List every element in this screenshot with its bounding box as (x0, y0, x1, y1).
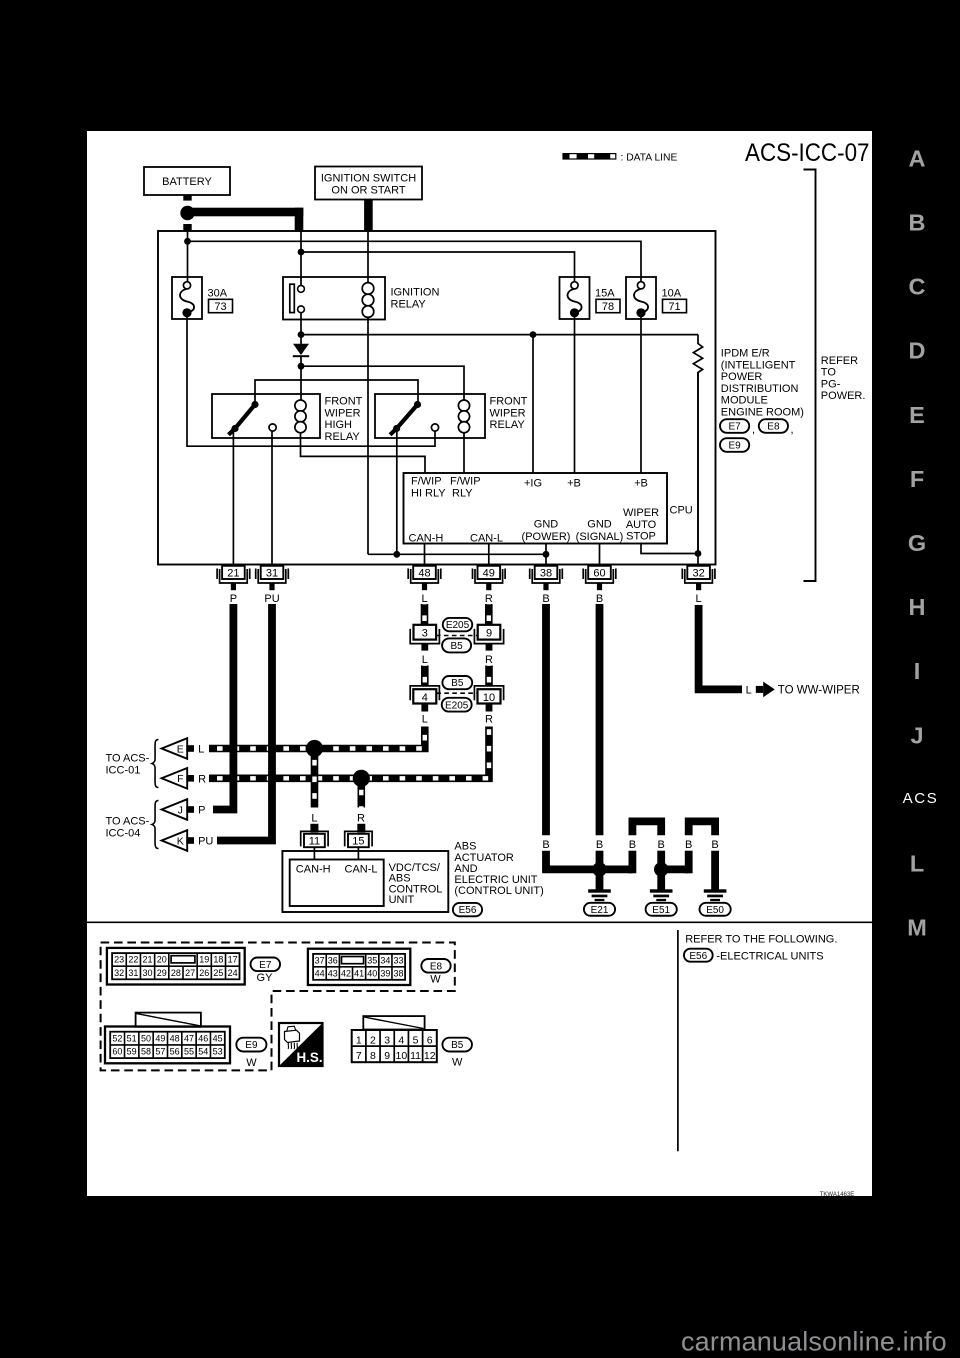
svg-text:71: 71 (668, 301, 680, 313)
svg-text:L: L (746, 684, 752, 696)
svg-text:TO WW-WIPER: TO WW-WIPER (778, 685, 860, 697)
svg-text:52: 52 (112, 1033, 122, 1043)
wire data line connector 3 to connector 4 (421, 666, 429, 687)
svg-text:TO ACS-: TO ACS- (106, 816, 150, 828)
svg-text:E: E (177, 743, 184, 755)
wire data line CAN-H drop to ABS pin 11 (311, 749, 319, 808)
svg-text:78: 78 (602, 301, 614, 313)
svg-text:+IG: +IG (524, 478, 542, 490)
connector ref E7 (720, 419, 749, 433)
connector 3 (414, 625, 437, 640)
svg-text:I: I (914, 658, 921, 684)
svg-text:STOP: STOP (626, 531, 656, 543)
svg-text:RELAY: RELAY (325, 431, 361, 443)
svg-text:ENGINE ROOM): ENGINE ROOM) (721, 407, 804, 419)
svg-text:E56: E56 (689, 951, 707, 962)
wire +IG down to CPU (532, 335, 534, 473)
fuse 30A 73 (172, 277, 202, 319)
svg-text:POWER.: POWER. (821, 390, 866, 402)
wire high relay armature to pin 21 (232, 431, 234, 566)
svg-text:15: 15 (352, 836, 364, 848)
svg-text:G: G (908, 530, 926, 556)
white drawing sheet (87, 131, 872, 1196)
svg-text:3: 3 (422, 628, 428, 640)
wire stub ABS pin 15 (357, 824, 365, 833)
node ground E21 (592, 862, 606, 876)
wire CAN-H to pin 48 (424, 544, 426, 566)
wire battery thick feed to ignition relay column (188, 208, 304, 217)
svg-text:J: J (910, 722, 923, 748)
connector pin 49 (478, 566, 501, 579)
svg-text:W: W (452, 1057, 463, 1069)
svg-text:32: 32 (114, 968, 124, 978)
svg-text:12: 12 (424, 1050, 436, 1062)
node +IG branch (298, 331, 305, 338)
svg-text:R: R (485, 654, 493, 666)
svg-text:ICC-04: ICC-04 (106, 827, 141, 839)
svg-text:59: 59 (127, 1047, 137, 1057)
ground E51 (657, 873, 665, 890)
svg-text:(INTELLIGENT: (INTELLIGENT (721, 359, 796, 371)
connector face E9 (136, 1013, 201, 1027)
svg-text:W: W (246, 1057, 257, 1069)
off-page arrow J (162, 799, 188, 820)
node CAN-H branch (306, 740, 323, 757)
connector ref E205 lower (442, 698, 472, 712)
wire battery stub (183, 195, 191, 201)
svg-text:32: 32 (692, 568, 704, 580)
wire armature feed bus (255, 380, 418, 402)
svg-text:E50: E50 (706, 905, 724, 916)
svg-text:,: , (752, 424, 755, 436)
fuse 15A 78 (560, 277, 590, 319)
svg-text:AUTO: AUTO (626, 519, 657, 531)
svg-text:60: 60 (112, 1047, 122, 1057)
svg-text:48: 48 (418, 568, 430, 580)
svg-text:44: 44 (315, 968, 325, 978)
svg-text:B5: B5 (451, 678, 464, 689)
svg-text:WIPER: WIPER (623, 507, 659, 519)
connector 10 (474, 686, 503, 700)
connector ref E56 note (684, 949, 713, 962)
svg-text:UNIT: UNIT (389, 894, 415, 906)
svg-text:35: 35 (367, 955, 377, 965)
svg-text:P: P (198, 805, 205, 817)
svg-text:E8: E8 (767, 422, 780, 433)
wire 15A fuse to CPU +B (574, 316, 576, 473)
svg-text:CAN-L: CAN-L (345, 864, 378, 876)
connector detail dashed group outline (101, 943, 455, 1071)
wire wiper auto stop output (641, 544, 698, 554)
svg-text:4: 4 (422, 692, 428, 704)
svg-text:E9: E9 (728, 441, 741, 452)
connector ref E205 (443, 618, 473, 631)
svg-text:ON OR START: ON OR START (331, 185, 405, 197)
svg-text:25: 25 (213, 968, 223, 978)
svg-text:L: L (422, 654, 428, 666)
svg-text:53: 53 (213, 1047, 223, 1057)
svg-text:CAN-H: CAN-H (409, 532, 444, 544)
svg-text:5: 5 (413, 1034, 419, 1046)
svg-text:B: B (542, 593, 549, 605)
connector ref E9 (720, 438, 749, 452)
svg-text:M: M (907, 915, 927, 941)
svg-text:RLY: RLY (452, 487, 473, 499)
svg-text:: DATA LINE: : DATA LINE (621, 153, 678, 164)
wire ground bus segment (368, 553, 546, 555)
svg-text:L: L (696, 593, 702, 605)
svg-text:55: 55 (184, 1047, 194, 1057)
connector ref E8 (759, 419, 788, 433)
wire +IG bus (301, 334, 698, 336)
wire high relay contact to pin 31 (271, 431, 273, 566)
wire GND POWER to pin 38 (545, 544, 547, 566)
off-page arrow E (162, 738, 188, 759)
wire ignition switch feed (364, 200, 373, 232)
svg-text:38: 38 (540, 568, 552, 580)
svg-text:36: 36 (328, 955, 338, 965)
svg-text:HIGH: HIGH (325, 419, 353, 431)
off-page arrow K (162, 830, 188, 851)
ground loop 2 (689, 821, 715, 835)
wire stub ABS pin 11 (310, 824, 318, 833)
svg-text:4: 4 (398, 1034, 404, 1046)
svg-text:J: J (178, 804, 183, 816)
svg-text:30A: 30A (208, 287, 228, 299)
node +IG tap (530, 331, 537, 338)
connector pin 31 (261, 566, 284, 579)
svg-text:9: 9 (486, 628, 492, 640)
svg-text:42: 42 (341, 968, 351, 978)
svg-text:GND: GND (587, 519, 612, 531)
svg-text:B: B (685, 839, 692, 851)
svg-text:carmanualsonline.info: carmanualsonline.info (681, 1327, 947, 1357)
svg-text:2: 2 (370, 1034, 376, 1046)
wire diode output to high relay coil (300, 366, 302, 400)
svg-text:3: 3 (384, 1034, 390, 1046)
svg-text:F/WIP: F/WIP (411, 476, 442, 488)
svg-text:40: 40 (367, 968, 377, 978)
svg-text:23: 23 (114, 955, 124, 965)
brace TO ACS-ICC-04 (152, 801, 159, 849)
svg-text:RELAY: RELAY (490, 419, 526, 431)
svg-text:43: 43 (328, 968, 338, 978)
wire 10A fuse to CPU +B (640, 316, 642, 473)
svg-text:15A: 15A (595, 287, 615, 299)
wire data line to ACS-ICC-01 F row (209, 727, 489, 779)
svg-text:E8: E8 (430, 961, 443, 972)
hand symbol H.S. (279, 1023, 323, 1066)
svg-text:-ELECTRICAL UNITS: -ELECTRICAL UNITS (716, 951, 823, 963)
svg-text:41: 41 (354, 968, 364, 978)
svg-text:R: R (485, 714, 493, 726)
IPDM E/R box (158, 231, 716, 565)
svg-text:10A: 10A (662, 287, 682, 299)
ignition relay box (283, 277, 385, 320)
wire ground link E51 to loop2 (661, 866, 689, 874)
svg-text:F: F (177, 773, 183, 785)
svg-text:73: 73 (214, 301, 226, 313)
svg-text:19: 19 (199, 955, 209, 965)
relay box (375, 394, 485, 438)
svg-text:GND: GND (534, 519, 559, 531)
svg-text:IGNITION SWITCH: IGNITION SWITCH (321, 173, 416, 185)
node contact feed to 15A (298, 249, 305, 256)
off-page arrow F (162, 768, 188, 789)
wire GND SIGNAL to pin 60 (599, 544, 601, 566)
svg-text:TKWA1463E: TKWA1463E (820, 1192, 854, 1198)
ignition relay contact bar (290, 284, 295, 312)
connector pin 48 (413, 566, 436, 579)
connector mate line E205/B5 (436, 635, 478, 637)
svg-text:REFER TO THE FOLLOWING.: REFER TO THE FOLLOWING. (685, 933, 837, 945)
wire high relay coil to CPU F/WIP HI RLY (301, 433, 426, 473)
svg-text:11: 11 (309, 836, 320, 848)
node armature ground join (393, 551, 400, 558)
ground E21 (596, 873, 604, 890)
wire ground link E21 to loop1 (600, 866, 633, 874)
wire pin 21 P to arrow J (213, 604, 233, 810)
svg-text:56: 56 (170, 1047, 180, 1057)
svg-text:L: L (421, 593, 427, 605)
svg-text:37: 37 (315, 955, 325, 965)
wire 30A fuse to front wiper relay contact (187, 316, 435, 446)
svg-text:H.S.: H.S. (297, 1050, 323, 1065)
svg-text:K: K (177, 835, 184, 847)
svg-text:27: 27 (185, 968, 195, 978)
svg-text:34: 34 (380, 955, 390, 965)
svg-text:B5: B5 (451, 1040, 464, 1051)
node CAN-L branch (353, 770, 370, 787)
svg-text:29: 29 (157, 968, 167, 978)
relay fixed contact (269, 424, 276, 431)
svg-text:E56: E56 (459, 905, 477, 916)
svg-text:+B: +B (567, 478, 581, 490)
svg-text:CAN-H: CAN-H (296, 864, 331, 876)
svg-text:WIPER: WIPER (325, 407, 361, 419)
CPU box U1 (404, 473, 668, 544)
svg-text:TO ACS-: TO ACS- (106, 753, 150, 765)
ground loop 1 (632, 821, 661, 835)
node wiper auto stop join (695, 550, 702, 557)
svg-text:50: 50 (141, 1033, 151, 1043)
svg-text:,: , (791, 424, 794, 436)
svg-text:MODULE: MODULE (721, 395, 768, 407)
svg-text:(POWER): (POWER) (522, 531, 571, 543)
brace TO ACS-ICC-01 (152, 740, 159, 788)
ignition relay coil (367, 231, 369, 283)
svg-text:7: 7 (356, 1050, 362, 1062)
svg-text:IPDM E/R: IPDM E/R (721, 348, 770, 360)
ABS actuator unit box (282, 851, 448, 912)
svg-text:49: 49 (155, 1033, 165, 1043)
svg-text:B5: B5 (450, 641, 463, 652)
wire resistor to pin 32 (697, 372, 699, 566)
svg-text:D: D (909, 338, 926, 364)
svg-text:6: 6 (427, 1034, 433, 1046)
wire front wiper relay armature to ground bus (396, 431, 398, 555)
node diode output (298, 363, 305, 370)
svg-text:21: 21 (227, 568, 239, 580)
svg-text:31: 31 (128, 968, 138, 978)
svg-text:IGNITION: IGNITION (391, 287, 440, 299)
svg-text:C: C (909, 274, 926, 300)
svg-text:P: P (230, 593, 237, 605)
battery box (144, 167, 230, 195)
svg-text:B: B (542, 839, 549, 851)
arrow to WW-WIPER (756, 686, 763, 693)
wire data line to ACS-ICC-01 E row (209, 727, 425, 749)
svg-text:DISTRIBUTION: DISTRIBUTION (721, 383, 799, 395)
svg-text:E: E (909, 402, 925, 428)
svg-text:(SIGNAL): (SIGNAL) (576, 531, 624, 543)
svg-text:E205: E205 (446, 620, 470, 631)
svg-text:20: 20 (157, 955, 167, 965)
svg-text:L: L (198, 744, 204, 756)
node battery bus (184, 238, 191, 245)
wire data line connector 9 to connector 10 (485, 666, 493, 687)
svg-text:E7: E7 (259, 960, 272, 971)
svg-text:FRONT: FRONT (325, 396, 363, 408)
svg-text:FRONT: FRONT (490, 396, 528, 408)
connector pin 38 (535, 566, 558, 579)
svg-text:+B: +B (634, 478, 648, 490)
separator column line (677, 930, 679, 1151)
relay armature (397, 405, 418, 429)
svg-text:60: 60 (593, 568, 605, 580)
svg-text:ICC-01: ICC-01 (106, 764, 141, 776)
svg-text:46: 46 (198, 1033, 208, 1043)
svg-text:E7: E7 (728, 422, 741, 433)
connector 4 (410, 686, 439, 700)
svg-text:TO: TO (821, 367, 837, 379)
wire pin 60 B to ground (596, 604, 604, 835)
svg-text:51: 51 (127, 1033, 137, 1043)
svg-text:HI RLY: HI RLY (411, 487, 446, 499)
wire battery dashed stub into IPDM (183, 224, 191, 231)
wire CAN-H data line pin 48 to connector 3 (421, 604, 429, 625)
svg-text:17: 17 (228, 955, 238, 965)
wire relay output to diode (300, 313, 302, 336)
VDC/TCS/ABS control unit inner box (290, 860, 384, 907)
node gnd power join (543, 551, 550, 558)
svg-text:ACS: ACS (903, 790, 939, 807)
wire front wiper relay coil to CPU F/WIP RLY (463, 433, 465, 473)
connector pin 32 (687, 566, 710, 579)
connector face E8 (308, 949, 410, 985)
svg-text:30: 30 (143, 968, 153, 978)
svg-text:10: 10 (483, 692, 495, 704)
connector ref B5 (442, 638, 471, 652)
wire diode output to front wiper relay coil (301, 366, 464, 400)
svg-text:L: L (422, 714, 428, 726)
svg-text:B: B (711, 839, 718, 851)
svg-text:E205: E205 (445, 700, 469, 711)
svg-text:POWER: POWER (721, 371, 763, 383)
svg-text:L: L (311, 812, 317, 824)
svg-text:57: 57 (155, 1047, 165, 1057)
svg-text:B: B (596, 839, 603, 851)
relay armature (235, 405, 255, 429)
connector mate line B5/E205 (436, 692, 477, 694)
wire ignition relay coil to ground bus (367, 317, 369, 554)
connector ref E56 (453, 903, 482, 916)
svg-text:GY: GY (257, 972, 274, 984)
svg-text:10: 10 (395, 1050, 407, 1062)
svg-text:PG-: PG- (821, 378, 841, 390)
svg-text:B: B (909, 210, 926, 236)
relay coil (295, 400, 306, 411)
wire bus to 15A fuse (301, 252, 575, 282)
node ground E51 (654, 862, 668, 876)
ignition relay contact pins (300, 231, 302, 286)
svg-text:B: B (629, 839, 636, 851)
diode D1 (300, 335, 302, 344)
ignition switch box (315, 167, 422, 200)
svg-text:B: B (596, 593, 603, 605)
svg-text:H: H (909, 594, 926, 620)
svg-text:CAN-L: CAN-L (470, 532, 503, 544)
ABS connector pin 11 (301, 831, 328, 846)
svg-text:F: F (910, 466, 924, 492)
connector pin 21 (222, 566, 245, 579)
svg-text:11: 11 (410, 1050, 421, 1062)
svg-text:E9: E9 (245, 1040, 258, 1051)
svg-text:E51: E51 (652, 905, 670, 916)
wire bus to 10A fuse (188, 241, 642, 282)
wire pin 38 B to ground (542, 604, 550, 835)
svg-text:(CONTROL UNIT): (CONTROL UNIT) (454, 885, 543, 897)
relay fixed contact (431, 424, 438, 431)
resistor R1 (693, 335, 702, 554)
svg-text:WIPER: WIPER (490, 407, 526, 419)
svg-text:B: B (658, 839, 665, 851)
svg-text:48: 48 (170, 1033, 180, 1043)
svg-text:49: 49 (483, 568, 495, 580)
svg-text:1: 1 (356, 1034, 362, 1046)
svg-text:RELAY: RELAY (391, 299, 427, 311)
svg-text:8: 8 (370, 1050, 376, 1062)
data line legend sample (562, 153, 616, 160)
connector face B5 (363, 1016, 424, 1029)
svg-text:33: 33 (394, 955, 404, 965)
svg-text:45: 45 (213, 1033, 223, 1043)
svg-text:38: 38 (394, 968, 404, 978)
relay coil (458, 400, 469, 411)
node battery junction (180, 206, 194, 220)
svg-text:54: 54 (198, 1047, 208, 1057)
fuse 10A 71 (626, 277, 656, 319)
wire CAN-L data line pin 49 to connector 9 (485, 604, 493, 625)
wire pin 31 PU to arrow K (217, 604, 272, 841)
svg-text:F/WIP: F/WIP (450, 476, 481, 488)
svg-text:31: 31 (266, 568, 278, 580)
connector face E7 (107, 948, 245, 985)
svg-text:L: L (910, 851, 924, 877)
connector 9 (478, 625, 501, 640)
svg-text:24: 24 (228, 968, 238, 978)
svg-text:PU: PU (264, 593, 279, 605)
svg-text:CPU: CPU (670, 505, 693, 517)
wire CAN-L to pin 49 (488, 544, 490, 566)
ground E50 (704, 889, 727, 892)
relay box (212, 394, 320, 438)
wire battery branch inside IPDM (187, 231, 189, 282)
svg-text:W: W (430, 974, 441, 986)
svg-text:22: 22 (128, 955, 138, 965)
svg-text:A: A (909, 145, 926, 171)
svg-text:ACS-ICC-07: ACS-ICC-07 (745, 140, 870, 167)
